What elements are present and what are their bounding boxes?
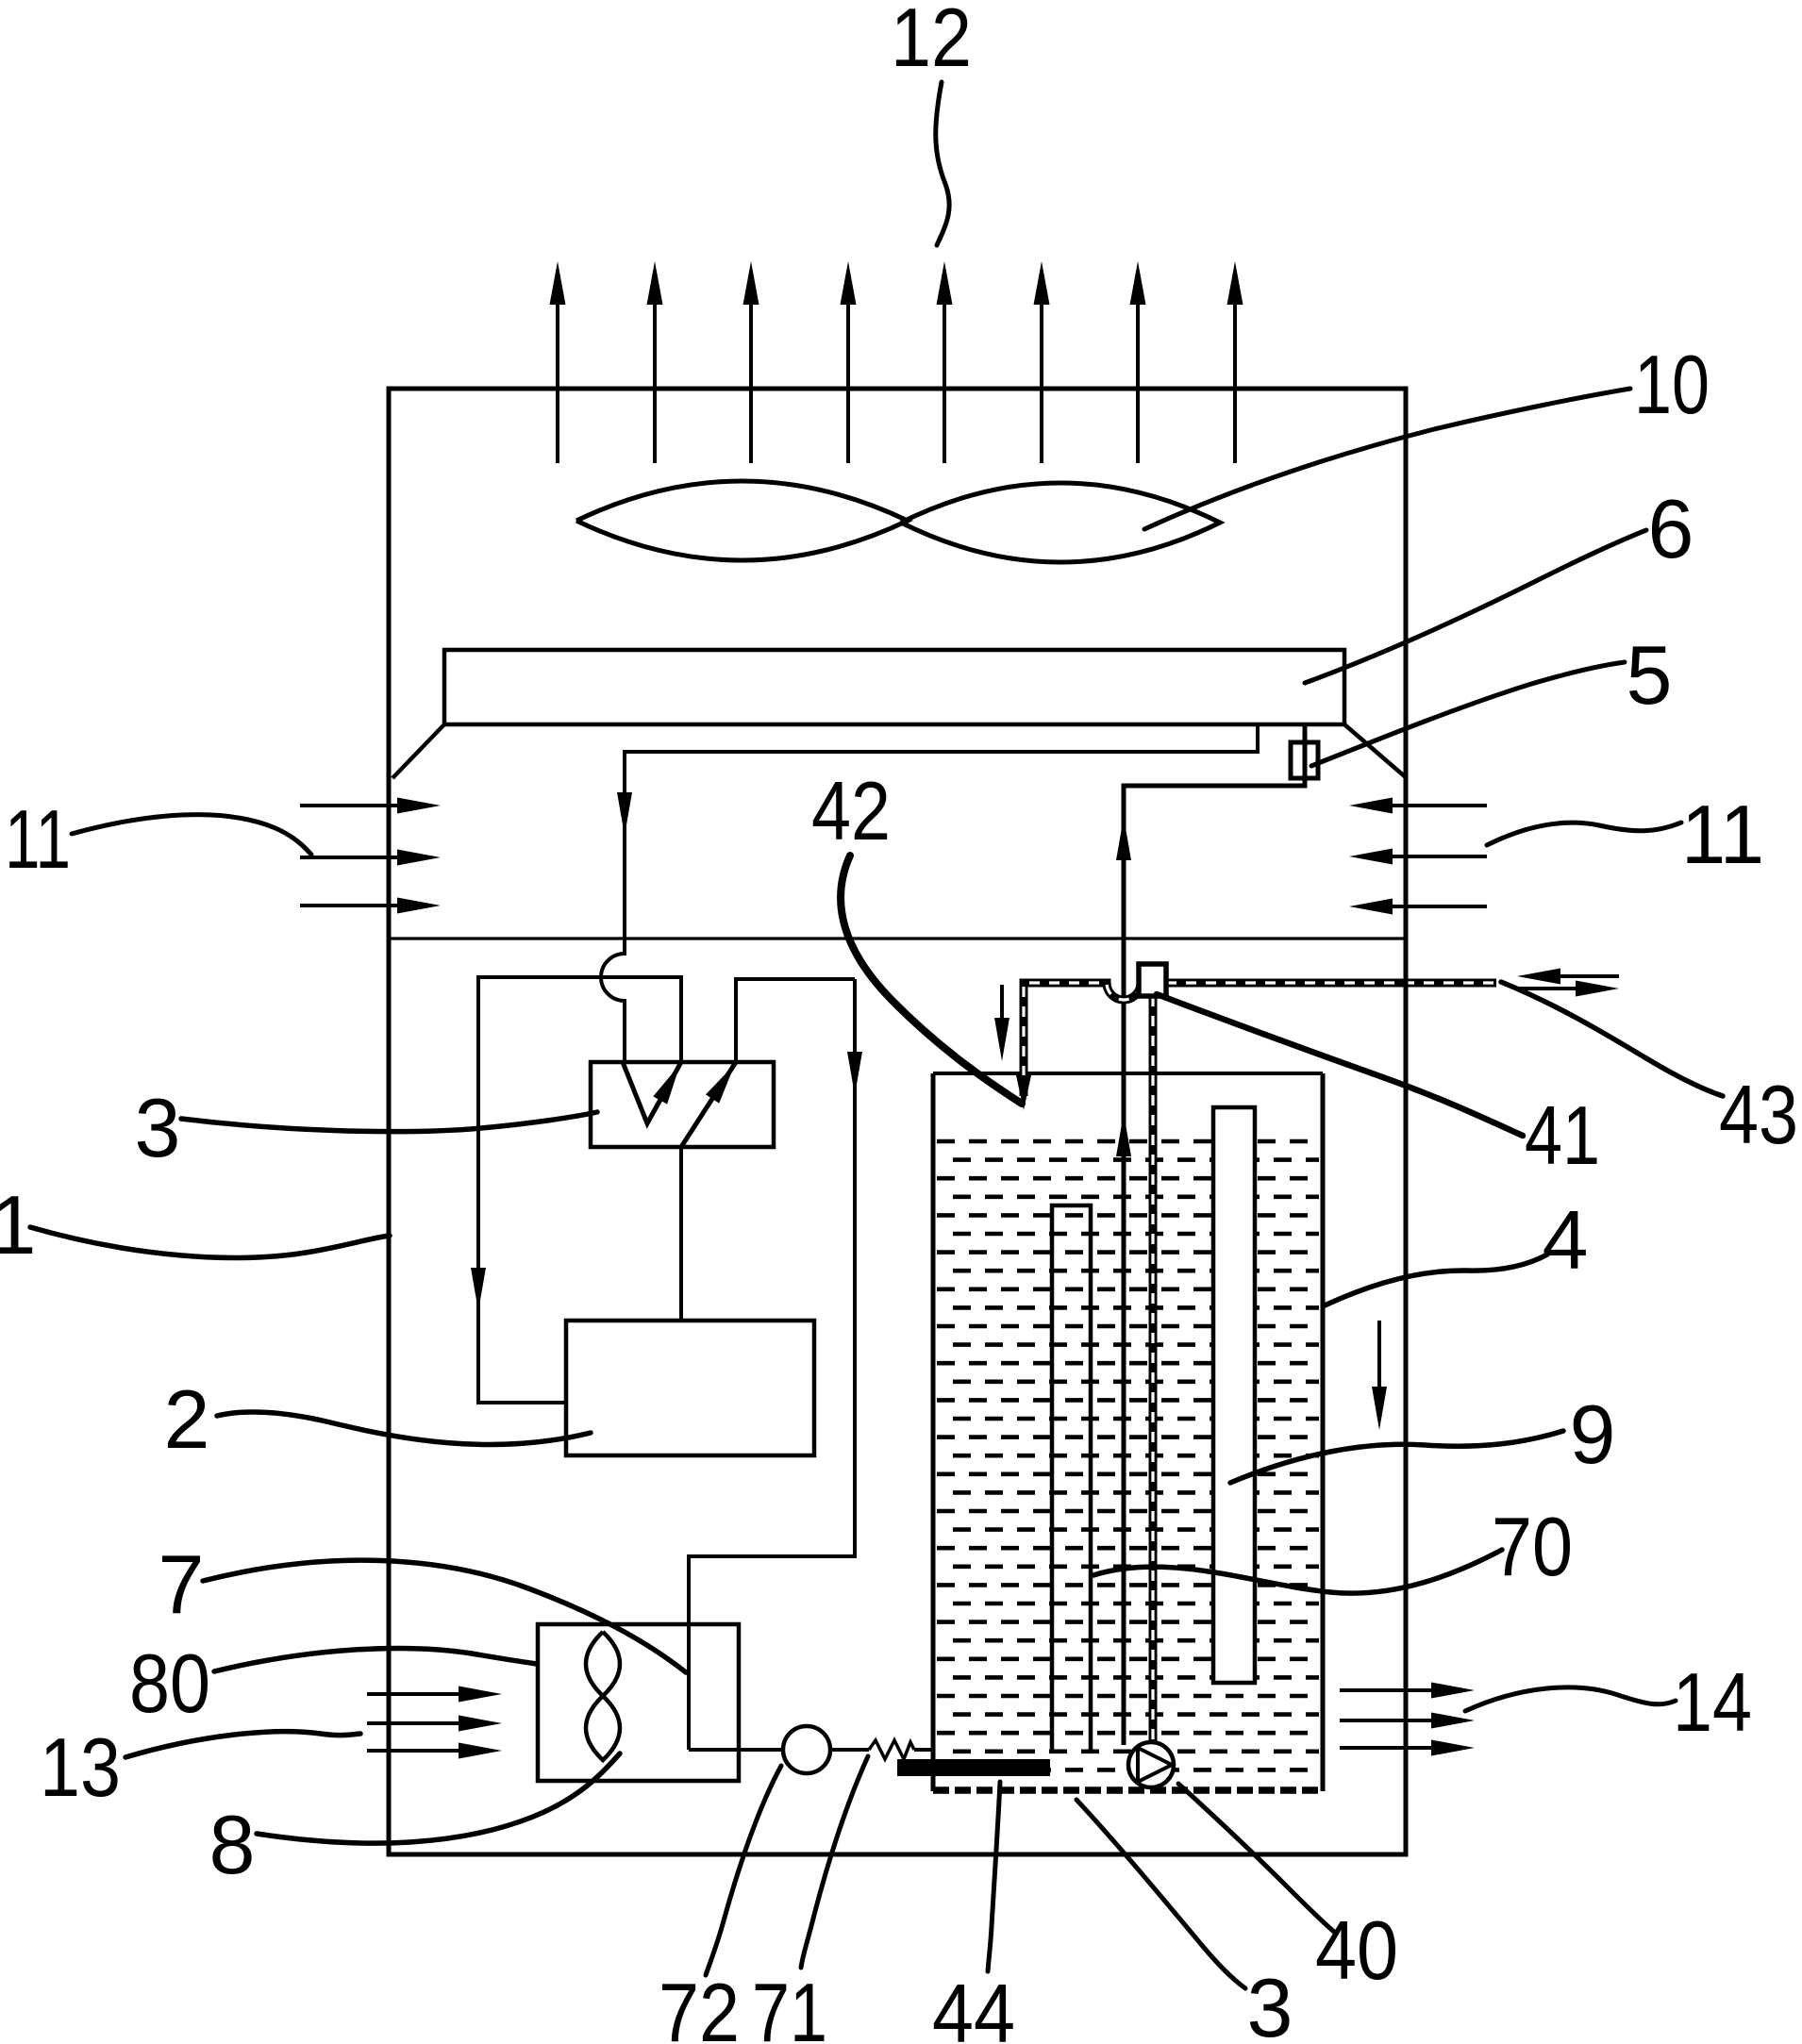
insulated pipe 42/43: horizontal run with hop and down-leg into tank (1024, 983, 1496, 1096)
svg-text:4: 4 (1543, 1193, 1589, 1287)
svg-text:41: 41 (1525, 1088, 1600, 1182)
leader 80 (214, 1648, 537, 1671)
flow arrow down beside tank (1377, 1321, 1381, 1388)
inlet air arrow 13 y=1856 (367, 1749, 460, 1753)
leader 41 (1157, 994, 1523, 1136)
inlet air arrow 13 y=1796 (367, 1692, 460, 1696)
svg-text:72: 72 (659, 1966, 740, 2044)
leader 2 (217, 1412, 591, 1445)
pump 40 (1128, 1742, 1174, 1787)
leader 5 (1311, 662, 1625, 766)
inlet air arrow 11 left y=909 (300, 856, 399, 859)
leader 11 right (1487, 823, 1681, 845)
leader 3 bottom (1076, 1800, 1245, 1988)
leader 3 left (181, 1112, 597, 1132)
svg-text:3: 3 (135, 1081, 181, 1174)
leader 11 left (72, 815, 311, 855)
leader 70 (1093, 1550, 1502, 1593)
tank 4 top edge (933, 1072, 1323, 1075)
outlet air arrow 12 at x=899 (846, 302, 850, 463)
leader 43 (1501, 982, 1723, 1096)
svg-text:14: 14 (1673, 1655, 1752, 1749)
svg-text:8: 8 (209, 1798, 256, 1891)
leader 40 (1178, 1784, 1334, 1932)
outlet air arrow 12 at x=1104 (1040, 302, 1043, 463)
funnel diagonal left (392, 724, 444, 778)
svg-text:10: 10 (1634, 338, 1710, 431)
fan 8 (lower blade) (586, 1696, 620, 1760)
bottom pipe run: evaporator to tank (689, 1748, 933, 1752)
heater bar 44 (897, 1759, 1050, 1776)
tank 4 bottom (thick dashed) (933, 1786, 1323, 1794)
fan 8 (upper blade) (586, 1632, 620, 1696)
external water inlet arrow (left-pointing) (1559, 974, 1619, 978)
leader 7 (203, 1560, 686, 1672)
pipe valve 3 to compressor 2 (679, 1147, 683, 1321)
fan 10 (right blade) (901, 483, 1220, 562)
svg-text:80: 80 (129, 1637, 210, 1730)
leader 44 (988, 1782, 1000, 1971)
svg-text:13: 13 (40, 1720, 121, 1814)
svg-text:11: 11 (5, 792, 71, 886)
leader 13 (125, 1732, 360, 1757)
four-way valve 3 (box) (591, 1062, 774, 1147)
sterilizer stick 9 (inner tube right) (1213, 1107, 1255, 1683)
svg-text:5: 5 (1627, 628, 1673, 722)
down arrow on right vertical (847, 1052, 862, 1095)
outlet air arrow 12 at x=694 (653, 302, 657, 463)
outlet air arrow 12 at x=591 (556, 302, 559, 463)
leader 71 (801, 1756, 868, 1968)
leader 1 (30, 1227, 390, 1257)
svg-text:70: 70 (1492, 1500, 1573, 1593)
loop right vertical down to evaporator (689, 979, 855, 1750)
external water outlet arrow (right-pointing) (1517, 987, 1577, 990)
outlet air arrow 14 y=1824 (1340, 1719, 1432, 1722)
inlet air arrow 11 right y=908 (1393, 855, 1487, 858)
svg-text:42: 42 (811, 764, 891, 857)
leader 8 (257, 1753, 620, 1843)
overflow tube 70 (inner tube left) (1052, 1205, 1091, 1750)
svg-text:2: 2 (164, 1372, 210, 1466)
leader 42 (841, 856, 1022, 1104)
arrowhead at pipe 42 outlet into tank (1016, 1075, 1031, 1110)
up arrow on riser (lower) (1116, 1113, 1131, 1156)
funnel diagonal right (1344, 724, 1407, 778)
inlet air arrow 11 left y=854 (300, 804, 399, 807)
svg-text:12: 12 (891, 0, 972, 84)
leader 14 (1465, 1687, 1676, 1711)
svg-text:43: 43 (1719, 1068, 1798, 1161)
leader 12 (936, 82, 949, 245)
condenser 6 (444, 650, 1344, 724)
svg-text:3: 3 (1247, 1961, 1293, 2044)
svg-text:7: 7 (159, 1537, 205, 1631)
evaporator fan box 7/8/80 (538, 1624, 739, 1781)
svg-text:44: 44 (932, 1967, 1015, 2044)
water tank 4 dashed water fill (937, 1141, 1319, 1770)
insulated pipe to pump (vertical) (1149, 996, 1158, 1744)
svg-text:71: 71 (752, 1966, 827, 2044)
leader 72 (706, 1766, 781, 1975)
leader 6 (1305, 530, 1646, 683)
water inflow arrow above tank (1000, 985, 1004, 1020)
loop top right segment and drop to valve 3 (736, 979, 855, 1062)
inlet air arrow 11 left y=960 (300, 904, 399, 907)
divider line (389, 937, 1406, 939)
valve 41 on insulated pipe (1139, 964, 1166, 996)
up arrow on riser (upper) (1116, 817, 1131, 860)
outlet air arrow 12 at x=1206 (1136, 302, 1140, 463)
nozzle 5 (small box) (1291, 742, 1318, 778)
refrigerant pipe from condenser to valve 3 (with hop) (601, 724, 1258, 1062)
outlet air arrow 14 y=1792 (1340, 1688, 1432, 1692)
outlet air arrow 12 at x=796 (749, 302, 753, 463)
inlet air arrow 11 right y=961 (1393, 905, 1487, 908)
water pipe (pump to nozzle 5): riser and top run (1124, 724, 1305, 1745)
fan 10 (left blade) (576, 481, 908, 560)
housing 1 (outer box) (389, 389, 1406, 1854)
svg-text:11: 11 (1681, 788, 1764, 881)
refrigeration loop left: top edge, left vertical, bottom to compressor (478, 977, 681, 1403)
svg-text:40: 40 (1315, 1903, 1398, 1997)
outlet air arrow 12 at x=1001 (943, 302, 946, 463)
leader 10 (1144, 389, 1630, 529)
leader 4 (1325, 1255, 1547, 1305)
compressor 2 (566, 1321, 814, 1455)
V symbol inside valve (623, 1062, 681, 1123)
down arrow on left vertical (471, 1268, 486, 1311)
tank 4 right wall (1321, 1073, 1326, 1791)
svg-text:6: 6 (1648, 482, 1694, 575)
svg-text:1: 1 (0, 1178, 36, 1271)
diagonal arrow inside valve (681, 1062, 736, 1147)
leader 9 (1230, 1431, 1563, 1483)
outlet air arrow 12 at x=1309 (1233, 302, 1237, 463)
inlet air arrow 11 right y=854 (1393, 804, 1487, 807)
down arrow on that pipe (617, 792, 632, 836)
outlet air arrow 14 y=1853 (1340, 1746, 1432, 1750)
tank 4 left wall (931, 1073, 936, 1791)
heater element 71 (zigzag) (869, 1740, 914, 1759)
svg-text:9: 9 (1570, 1388, 1616, 1481)
inlet air arrow 13 y=1827 (367, 1721, 460, 1725)
drain pump 72 (circle) (783, 1726, 830, 1773)
